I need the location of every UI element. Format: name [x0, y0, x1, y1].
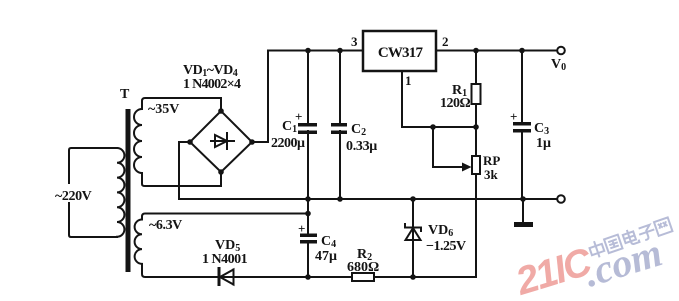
- svg-text:1 N4002×4: 1 N4002×4: [183, 77, 241, 92]
- svg-text:C3: C3: [534, 121, 549, 137]
- svg-text:VD6: VD6: [428, 223, 453, 239]
- svg-text:2200μ: 2200μ: [271, 136, 305, 151]
- svg-text:.com: .com: [579, 230, 668, 296]
- svg-text:680Ω: 680Ω: [347, 260, 379, 275]
- svg-text:1μ: 1μ: [536, 136, 551, 151]
- svg-text:T: T: [120, 87, 130, 102]
- svg-text:3: 3: [351, 34, 358, 49]
- svg-text:120Ω: 120Ω: [440, 96, 471, 111]
- svg-text:CW317: CW317: [378, 45, 424, 61]
- svg-text:C4: C4: [321, 234, 336, 250]
- svg-text:1 N4001: 1 N4001: [202, 252, 248, 267]
- svg-text:V0: V0: [551, 57, 566, 73]
- svg-text:1: 1: [405, 73, 412, 88]
- svg-text:+: +: [295, 109, 302, 124]
- svg-text:−1.25V: −1.25V: [426, 239, 466, 254]
- svg-text:C2: C2: [351, 122, 366, 138]
- svg-text:~35V: ~35V: [148, 102, 179, 117]
- svg-text:~6.3V: ~6.3V: [149, 218, 182, 233]
- svg-text:3k: 3k: [484, 167, 499, 182]
- svg-text:RP: RP: [483, 153, 500, 168]
- svg-text:+: +: [510, 109, 517, 124]
- svg-text:47μ: 47μ: [315, 249, 337, 264]
- svg-text:2: 2: [442, 34, 449, 49]
- svg-text:~220V: ~220V: [55, 189, 92, 204]
- svg-text:+: +: [298, 221, 305, 236]
- svg-text:0.33μ: 0.33μ: [346, 139, 377, 154]
